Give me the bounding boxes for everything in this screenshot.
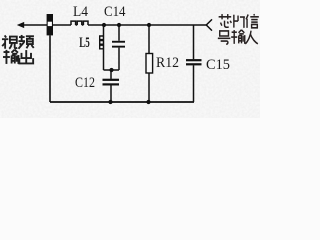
svg-text:C15: C15: [206, 57, 230, 73]
node dot C12 bottom: [108, 100, 112, 104]
wire: bottom rail: [50, 101, 194, 103]
capacitor C15: [193, 25, 195, 102]
svg-text:C12: C12: [75, 75, 95, 91]
wire: bead down to bottom rail: [49, 35, 51, 102]
open arrow (right, to chip input): [206, 19, 212, 30]
svg-text:R12: R12: [156, 55, 179, 71]
resistor R12 (box): [148, 25, 150, 102]
inductor L4 (square humps): [71, 21, 88, 25]
wire: top line after L4 to right arrow: [88, 24, 207, 26]
label 视频 (video output): [2, 35, 34, 64]
capacitor C12: [110, 70, 112, 102]
svg-text:L4: L4: [73, 4, 88, 20]
node dot L5 top: [102, 23, 106, 27]
svg-text:L5: L5: [79, 35, 90, 51]
node dot C14 top: [117, 23, 121, 27]
arrow head (left, output arrow): [17, 22, 24, 28]
wire: main top horizontal line: [22, 24, 71, 26]
wire: L5/C14 bottom join: [104, 69, 120, 71]
node dot join: [109, 68, 113, 72]
svg-text:C14: C14: [104, 4, 126, 20]
inductor L5 (vertical, square teeth left): [103, 25, 105, 70]
node dot R12 top: [147, 23, 151, 27]
capacitor C14: [118, 25, 120, 70]
node dot R12 bottom: [146, 100, 150, 104]
ferrite bead / shielded feed-through: [47, 14, 53, 35]
label 芯片信号输入 (chip signal input): [218, 14, 259, 44]
